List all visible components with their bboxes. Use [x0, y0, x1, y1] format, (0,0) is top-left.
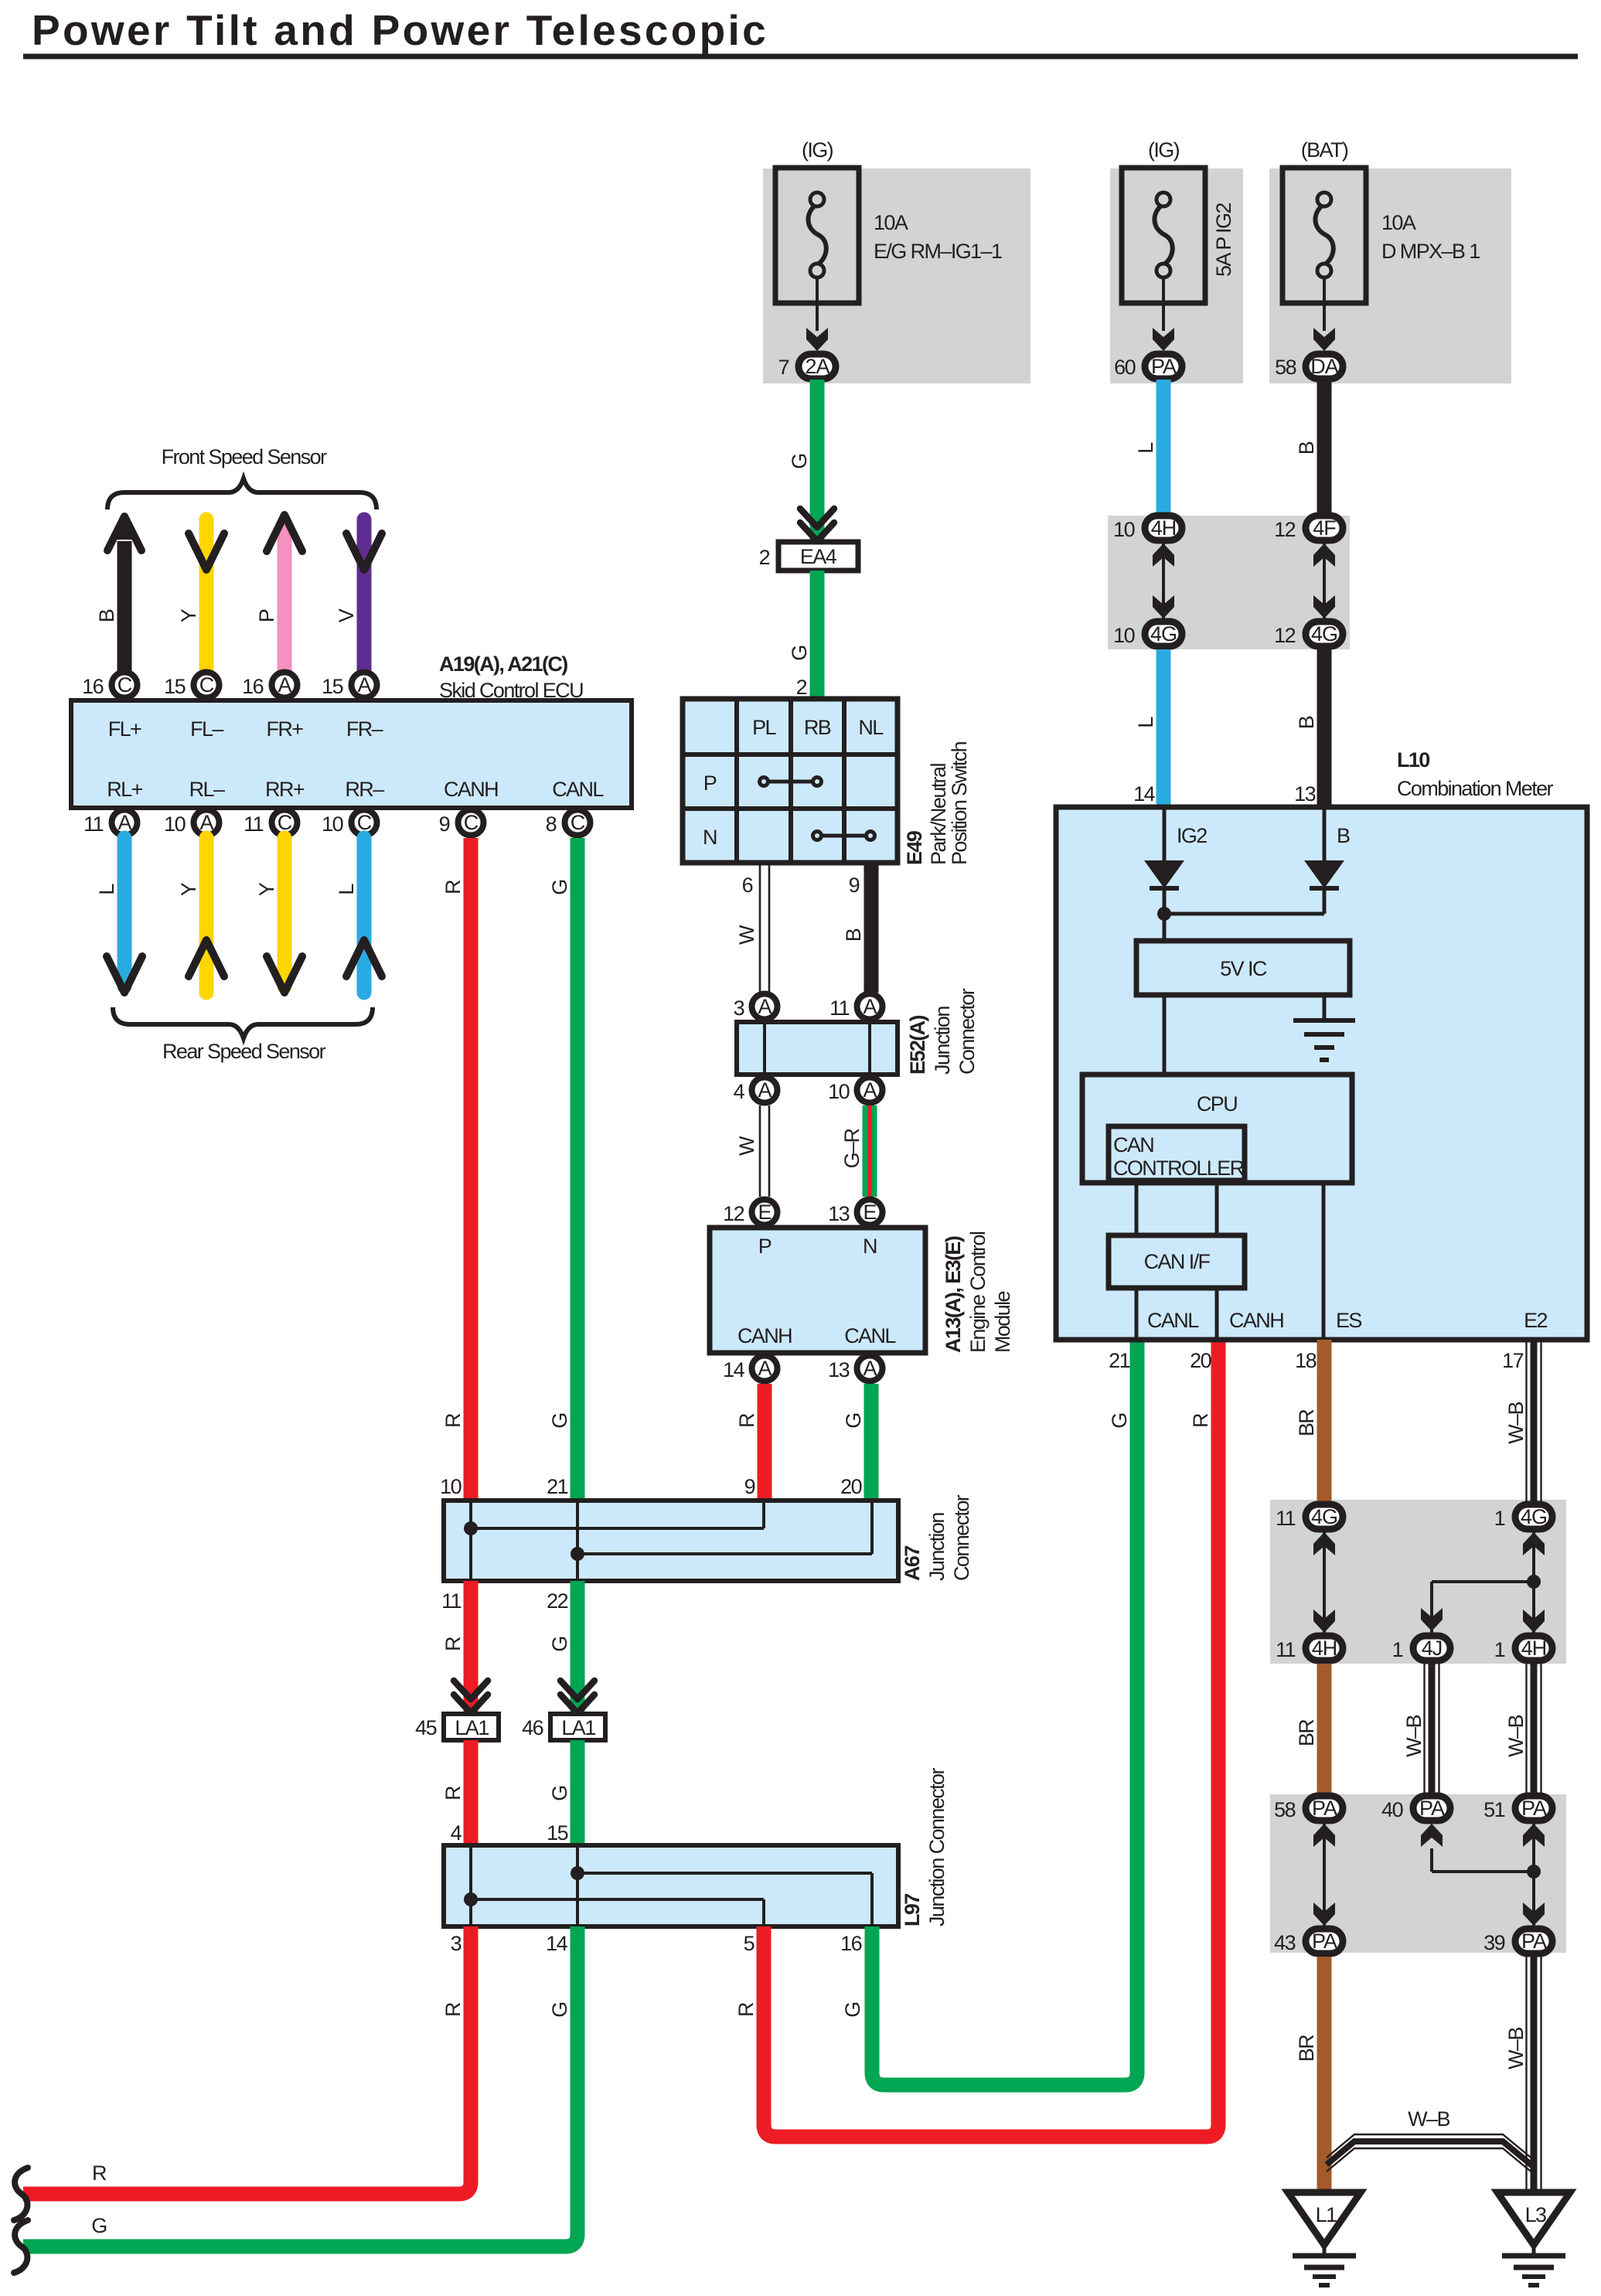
svg-text:21: 21 [1109, 1349, 1129, 1372]
connector 10 4H [1113, 516, 1182, 541]
svg-text:13: 13 [828, 1358, 849, 1381]
svg-text:A: A [278, 673, 291, 697]
svg-text:RR+: RR+ [265, 778, 305, 801]
svg-text:5A P IG2: 5A P IG2 [1212, 203, 1235, 277]
svg-text:21: 21 [547, 1475, 567, 1498]
svg-text:L1: L1 [1316, 2203, 1337, 2226]
svg-text:A: A [758, 995, 772, 1018]
title rule [23, 54, 1578, 60]
svg-text:E49: E49 [903, 830, 926, 865]
svg-text:20: 20 [1190, 1349, 1211, 1372]
E49 switch contact P: PL-RB [760, 778, 822, 786]
svg-text:L: L [335, 884, 358, 895]
svg-text:10: 10 [164, 812, 185, 836]
svg-text:9: 9 [439, 812, 450, 836]
svg-text:CANH: CANH [737, 1324, 792, 1347]
svg-text:10: 10 [828, 1080, 849, 1103]
label A67 Junction Connector [901, 1494, 973, 1581]
svg-text:(IG): (IG) [1148, 138, 1180, 162]
label Rear Speed Sensor [162, 1040, 326, 1063]
svg-text:A13(A), E3(E): A13(A), E3(E) [942, 1236, 965, 1353]
label E49 Park/Neutral Position Switch [903, 741, 971, 865]
svg-text:E52(A): E52(A) [906, 1015, 929, 1075]
wire G from EA4 to E49 pin 2 [788, 571, 817, 699]
svg-text:10: 10 [322, 812, 342, 836]
ECU pin 11 C [244, 810, 297, 836]
svg-text:Connector: Connector [955, 988, 979, 1075]
svg-text:45: 45 [415, 1716, 436, 1739]
svg-text:G: G [548, 1637, 571, 1651]
svg-text:BR: BR [1295, 2035, 1318, 2062]
svg-text:R: R [92, 2161, 107, 2185]
svg-text:PA: PA [1312, 1930, 1337, 1953]
label Front Speed Sensor [162, 445, 327, 468]
wire BR from 43 PA to ground L1 [1295, 1957, 1324, 2192]
label A13(A), E3(E) Engine Control Module [942, 1231, 1014, 1353]
svg-text:LA1: LA1 [561, 1716, 595, 1739]
svg-text:5V IC: 5V IC [1220, 957, 1267, 980]
squiggle end of wire R [14, 2168, 28, 2220]
svg-text:A: A [863, 1078, 877, 1102]
double chevron arrow into 46 LA1 [560, 1681, 594, 1713]
wire W-B from 1 4H to 51 PA [1504, 1664, 1541, 1793]
svg-text:CANH: CANH [1229, 1309, 1283, 1332]
5V IC [1136, 941, 1350, 995]
svg-text:G: G [841, 2002, 864, 2017]
wire G from A67 pin 22 to connector 46 LA1 [547, 1581, 577, 1714]
svg-text:22: 22 [547, 1589, 567, 1613]
svg-text:N: N [863, 1235, 877, 1258]
svg-text:11: 11 [1276, 1507, 1295, 1530]
connector 58 PA [1274, 1796, 1343, 1821]
svg-text:18: 18 [1295, 1349, 1316, 1372]
svg-text:E/G RM–IG1–1: E/G RM–IG1–1 [874, 240, 1002, 263]
svg-text:P: P [255, 609, 278, 622]
svg-text:CPU: CPU [1197, 1092, 1237, 1116]
wire R from ECM CANH to A67 pin 9 [735, 1384, 765, 1501]
wires CAN I/F to CANL CANH pins [1136, 1288, 1283, 1340]
svg-text:2: 2 [759, 546, 770, 569]
ground L3 [1497, 2192, 1570, 2285]
svg-text:6: 6 [742, 874, 753, 897]
gray panel 4G/4H/4J connector group [1270, 1500, 1566, 1664]
svg-text:G: G [788, 454, 811, 468]
wire R CANH from ECU pin 9 to A67 pin 10 [440, 838, 471, 1501]
svg-text:Power Tilt and Power Telescopi: Power Tilt and Power Telescopic [32, 6, 768, 54]
E49 switch contact N: RB-NL [813, 832, 875, 840]
svg-text:Junction: Junction [925, 1513, 949, 1581]
diode IG2 [1144, 860, 1184, 888]
svg-text:FL–: FL– [190, 717, 223, 741]
CAN CONTROLLER box [1109, 1126, 1245, 1180]
svg-text:L10: L10 [1397, 748, 1429, 772]
junction connector L97 [444, 1845, 898, 1926]
svg-text:D MPX–B 1: D MPX–B 1 [1381, 240, 1480, 263]
svg-text:12: 12 [1274, 624, 1295, 647]
ECU pin 16 C [82, 673, 137, 699]
svg-text:5: 5 [744, 1932, 755, 1955]
svg-text:CAN I/F: CAN I/F [1144, 1250, 1211, 1273]
svg-text:Y: Y [177, 608, 200, 622]
label A19(A), A21(C) Skid Control ECU [439, 652, 583, 702]
pass-through arrows 58 PA to 43 PA [1313, 1824, 1335, 1926]
svg-text:A: A [863, 995, 877, 1018]
svg-text:7: 7 [778, 356, 789, 379]
svg-text:G: G [91, 2214, 106, 2237]
svg-text:CANL: CANL [844, 1324, 896, 1347]
svg-text:FR+: FR+ [267, 717, 304, 741]
connector 45 LA1 [415, 1714, 499, 1740]
ECU pin 15 C [164, 673, 219, 699]
svg-text:58: 58 [1275, 356, 1296, 379]
ECU pin 11 A [83, 810, 137, 836]
svg-text:IG2: IG2 [1177, 824, 1207, 847]
svg-text:W: W [735, 1136, 758, 1156]
svg-text:Y: Y [177, 882, 200, 896]
svg-text:ES: ES [1336, 1309, 1361, 1332]
svg-text:11: 11 [244, 812, 263, 836]
park/neutral position switch E49 [683, 699, 898, 863]
svg-text:Park/Neutral: Park/Neutral [927, 764, 950, 865]
svg-text:51: 51 [1483, 1798, 1504, 1821]
label L97 Junction Connector [901, 1768, 949, 1926]
svg-text:15: 15 [164, 675, 185, 698]
ECM pin 13 A [828, 1356, 882, 1382]
wire W-B from 1 4J to 40 PA [1402, 1664, 1439, 1793]
wire CPU to ES pin [1323, 1183, 1361, 1340]
svg-text:4G: 4G [1311, 1505, 1337, 1528]
svg-text:15: 15 [547, 1821, 567, 1845]
ECU pin 8 C [546, 810, 591, 836]
wire W-B from 39 PA to ground L3 [1504, 1957, 1541, 2192]
svg-text:12: 12 [1274, 518, 1295, 541]
svg-text:13: 13 [828, 1202, 849, 1225]
svg-text:10: 10 [1113, 624, 1134, 647]
svg-text:PA: PA [1521, 1797, 1547, 1820]
svg-text:4H: 4H [1151, 516, 1177, 540]
svg-text:4J: 4J [1422, 1637, 1443, 1660]
svg-text:A: A [118, 811, 131, 834]
svg-text:A: A [758, 1078, 772, 1102]
svg-text:LA1: LA1 [455, 1716, 489, 1739]
svg-text:13: 13 [1294, 782, 1315, 806]
svg-text:CAN: CAN [1113, 1133, 1153, 1157]
svg-text:FR–: FR– [346, 717, 383, 741]
E52 pin 4 A [734, 1078, 778, 1104]
svg-text:C: C [118, 673, 132, 697]
svg-text:G: G [548, 1413, 571, 1428]
svg-text:B: B [842, 928, 865, 942]
wire W from E52 pin 4 to ECM pin 12 [735, 1105, 769, 1197]
svg-text:Rear Speed Sensor: Rear Speed Sensor [162, 1040, 326, 1063]
L10 internal wire IG2 [1164, 807, 1207, 860]
svg-text:R: R [1189, 1413, 1212, 1428]
wire Y rear-right speed sensor (arrow down) [255, 838, 302, 993]
wire R from A67 pin 11 to connector 45 LA1 [441, 1581, 471, 1714]
fuse 10A D MPX-B 1 (BAT) with connector 58 DA [1269, 138, 1511, 383]
svg-text:C: C [278, 811, 292, 834]
svg-text:14: 14 [546, 1932, 567, 1955]
wire G from 46 LA1 to L97 pin 15 [547, 1740, 577, 1845]
svg-text:PA: PA [1521, 1930, 1547, 1953]
svg-text:PL: PL [752, 716, 776, 739]
wire G from ECM CANL to A67 pin 20 [840, 1384, 871, 1501]
svg-text:CANL: CANL [1147, 1309, 1199, 1332]
svg-text:10: 10 [440, 1475, 461, 1498]
connector 46 LA1 [522, 1714, 605, 1740]
svg-text:W: W [735, 925, 758, 945]
svg-text:PA: PA [1151, 355, 1177, 378]
svg-text:G–R: G–R [840, 1129, 864, 1169]
wire BR from 11 4H to 58 PA [1295, 1664, 1324, 1793]
connector 1 4H [1494, 1636, 1552, 1661]
svg-text:Junction: Junction [931, 1007, 954, 1075]
wires CAN CONTROLLER to CAN I/F [1136, 1183, 1217, 1235]
svg-text:Y: Y [255, 882, 278, 896]
svg-text:W–B: W–B [1504, 1715, 1528, 1757]
svg-text:16: 16 [242, 675, 263, 698]
svg-text:BR: BR [1295, 1719, 1318, 1746]
svg-text:4G: 4G [1311, 622, 1337, 646]
svg-text:G: G [788, 646, 811, 660]
wire L rear-left speed sensor (arrow down) [95, 838, 142, 993]
wire R from L97 pin 5 to combination meter CANH riser [734, 1340, 1218, 2137]
wire G from fuse 2A to EA4 [788, 380, 817, 542]
svg-text:4F: 4F [1313, 516, 1336, 540]
wire from diode IG2 to 5V IC with junction dot [1157, 888, 1171, 941]
connector 1 4J [1392, 1636, 1450, 1661]
pin label E2 [1524, 1309, 1547, 1332]
CPU box [1082, 1075, 1352, 1183]
pass-through arrows 4F to 4G [1313, 543, 1335, 618]
svg-text:1: 1 [1494, 1638, 1505, 1661]
wire B from fuse DA to 4F [1295, 380, 1324, 513]
L10 internal wire B [1324, 807, 1350, 860]
svg-text:E: E [863, 1201, 876, 1224]
wire G-R from E52 pin 10 to ECM pin 13 [840, 1105, 870, 1197]
connector 51 PA [1483, 1796, 1552, 1821]
wire B front-left speed sensor (arrow up) [95, 513, 141, 671]
wire L from 4G to combination meter pin 14 [1133, 649, 1163, 807]
svg-text:R: R [734, 2002, 758, 2017]
svg-text:L: L [95, 884, 118, 895]
svg-text:11: 11 [441, 1589, 461, 1613]
svg-text:14: 14 [1133, 782, 1155, 806]
svg-text:4H: 4H [1312, 1637, 1337, 1660]
svg-text:15: 15 [322, 675, 342, 698]
squiggle end of wire G [14, 2220, 28, 2273]
connector 1 4G [1494, 1504, 1552, 1530]
svg-text:C: C [199, 673, 214, 697]
svg-text:Junction Connector: Junction Connector [925, 1768, 949, 1926]
junction connector E52(A) [737, 1022, 898, 1075]
wire R from L97 pin 3 to left edge [23, 1926, 471, 2194]
svg-text:40: 40 [1381, 1798, 1402, 1821]
fuse 5A P IG2 (IG) with connector 60 PA [1110, 138, 1243, 383]
svg-text:CANL: CANL [552, 778, 604, 801]
wire R CANH pin 20 (joins riser) [1189, 1349, 1212, 1428]
svg-text:Front Speed Sensor: Front Speed Sensor [162, 445, 327, 468]
branch wire to 1 4J with junction dot [1421, 1575, 1541, 1633]
pass-through arrows 4H to 4G [1153, 543, 1174, 618]
svg-text:Engine Control: Engine Control [966, 1231, 990, 1353]
fuse 10A E/G RM-IG1-1 (IG) with connector 7 2A [763, 138, 1030, 383]
wire R from 45 LA1 to L97 pin 4 [441, 1740, 471, 1845]
svg-text:9: 9 [744, 1475, 755, 1498]
svg-text:B: B [95, 609, 118, 622]
connector 2 EA4 [759, 542, 858, 571]
svg-text:3: 3 [451, 1932, 462, 1955]
wire B from 4G to combination meter pin 13 [1294, 649, 1324, 807]
svg-text:R: R [441, 1786, 465, 1800]
wire 5V IC to CPU [1163, 995, 1167, 1075]
svg-text:16: 16 [840, 1932, 861, 1955]
svg-text:4G: 4G [1521, 1505, 1547, 1528]
svg-text:17: 17 [1502, 1349, 1523, 1372]
svg-text:RB: RB [804, 716, 831, 739]
svg-text:12: 12 [723, 1202, 744, 1225]
svg-text:DA: DA [1310, 355, 1338, 378]
svg-text:R: R [441, 2002, 465, 2017]
svg-text:1: 1 [1392, 1638, 1403, 1661]
svg-text:11: 11 [829, 996, 849, 1020]
svg-text:(IG): (IG) [802, 138, 833, 162]
svg-text:FL+: FL+ [108, 717, 141, 741]
diode B [1304, 860, 1344, 888]
svg-text:RL+: RL+ [107, 778, 142, 801]
E52 pin 11 A [829, 994, 882, 1020]
svg-text:20: 20 [840, 1475, 861, 1498]
svg-text:G: G [1108, 1413, 1131, 1428]
connector 39 PA [1483, 1929, 1552, 1954]
wire G from L97 pin 14 to left edge [23, 1926, 577, 2247]
svg-text:W–B: W–B [1504, 1402, 1528, 1444]
svg-text:G: G [548, 1786, 571, 1800]
combination meter L10 [1056, 807, 1587, 1340]
ECU pin 15 A [322, 673, 376, 699]
svg-text:L: L [1134, 717, 1157, 728]
pass-through arrows 1 4G to 1 4H with branch [1523, 1532, 1545, 1633]
svg-text:8: 8 [546, 812, 557, 836]
svg-text:3: 3 [734, 996, 744, 1020]
svg-text:BR: BR [1295, 1409, 1318, 1436]
svg-text:11: 11 [83, 812, 103, 836]
skid control ECU A19(A), A21(C) [71, 700, 632, 808]
wire 5V IC to ground [1323, 995, 1327, 1020]
svg-text:Position Switch: Position Switch [948, 741, 971, 865]
svg-text:EA4: EA4 [800, 545, 837, 568]
wire G from L97 pin 16 to combination meter CANL riser [840, 1340, 1137, 2085]
svg-text:10: 10 [1113, 518, 1134, 541]
svg-text:46: 46 [522, 1716, 543, 1739]
E52 pin 3 A [734, 994, 778, 1020]
svg-text:16: 16 [82, 675, 103, 698]
wire L rear-right speed sensor (arrow up) [335, 838, 382, 993]
ground L1 [1288, 2192, 1361, 2285]
svg-text:(BAT): (BAT) [1301, 138, 1348, 162]
brace front speed sensor [107, 479, 376, 509]
svg-text:A: A [357, 673, 371, 697]
svg-text:Skid Control ECU: Skid Control ECU [439, 679, 583, 702]
internal ground symbol [1293, 1020, 1355, 1060]
svg-text:43: 43 [1274, 1931, 1295, 1954]
wire P front-right speed sensor (arrow up) [255, 515, 302, 671]
svg-text:V: V [335, 608, 358, 622]
svg-text:RR–: RR– [345, 778, 384, 801]
svg-text:B: B [1337, 824, 1350, 847]
svg-text:A: A [863, 1357, 877, 1380]
svg-text:4G: 4G [1150, 622, 1177, 646]
wire from diode B to junction [1164, 888, 1324, 914]
svg-text:PA: PA [1312, 1797, 1337, 1820]
connector 40 PA [1381, 1796, 1450, 1821]
svg-text:Connector: Connector [950, 1494, 973, 1581]
svg-text:2: 2 [796, 676, 807, 699]
svg-text:39: 39 [1483, 1931, 1504, 1954]
svg-text:PA: PA [1419, 1797, 1445, 1820]
svg-text:C: C [464, 811, 479, 834]
branch wire from 40 PA to junction dot [1421, 1824, 1541, 1879]
CAN I/F box [1109, 1235, 1245, 1288]
svg-text:C: C [357, 811, 372, 834]
pass-through arrows 11 4G to 11 4H [1313, 1532, 1335, 1633]
ECU pin 10 A [164, 810, 219, 836]
svg-text:60: 60 [1114, 356, 1135, 379]
svg-text:2A: 2A [805, 355, 829, 378]
svg-text:W–B: W–B [1408, 2107, 1449, 2131]
svg-text:R: R [441, 1637, 465, 1651]
wire G CANL from ECU pin 8 to A67 pin 21 [547, 838, 577, 1501]
svg-text:4: 4 [734, 1080, 745, 1103]
wire G CANL pin 21 (joins riser) [1108, 1349, 1131, 1429]
connector 11 4G [1276, 1504, 1343, 1530]
svg-text:4: 4 [451, 1821, 462, 1845]
ECU pin 9 C [439, 810, 484, 836]
connector 10 4G [1113, 622, 1182, 647]
svg-text:L: L [1134, 442, 1157, 454]
gray panel PA connector group [1270, 1794, 1566, 1953]
double chevron arrow into EA4 [800, 509, 834, 541]
wire L from fuse PA to 4H [1134, 380, 1163, 513]
ECU pin 16 A [242, 673, 297, 699]
svg-text:4H: 4H [1521, 1637, 1547, 1660]
connector 11 4H [1276, 1636, 1343, 1661]
svg-text:RL–: RL– [189, 778, 225, 801]
ECM pin 12 E [723, 1200, 777, 1226]
ECM pin 14 A [723, 1356, 777, 1382]
svg-text:A: A [199, 811, 213, 834]
wire Y rear-left speed sensor (arrow up) [177, 838, 224, 993]
svg-text:P: P [758, 1235, 772, 1258]
svg-text:58: 58 [1274, 1798, 1295, 1821]
connector 12 4F [1274, 516, 1343, 541]
svg-text:B: B [1295, 716, 1318, 729]
E52 pin 10 A [828, 1078, 882, 1104]
svg-text:11: 11 [1276, 1638, 1295, 1661]
engine control module A13(A), E3(E) [710, 1228, 925, 1353]
svg-text:L3: L3 [1525, 2203, 1546, 2226]
svg-text:P: P [703, 772, 717, 795]
svg-text:10A: 10A [1381, 211, 1416, 234]
svg-text:W–B: W–B [1504, 2028, 1528, 2069]
wire Y front-left speed sensor (arrow down) [177, 519, 224, 671]
svg-text:CONTROLLER: CONTROLLER [1113, 1157, 1245, 1180]
svg-text:9: 9 [849, 874, 860, 897]
label E52(A) Junction Connector [906, 988, 979, 1075]
svg-text:R: R [441, 1413, 465, 1428]
svg-text:B: B [1295, 441, 1318, 455]
svg-text:1: 1 [1494, 1507, 1505, 1530]
